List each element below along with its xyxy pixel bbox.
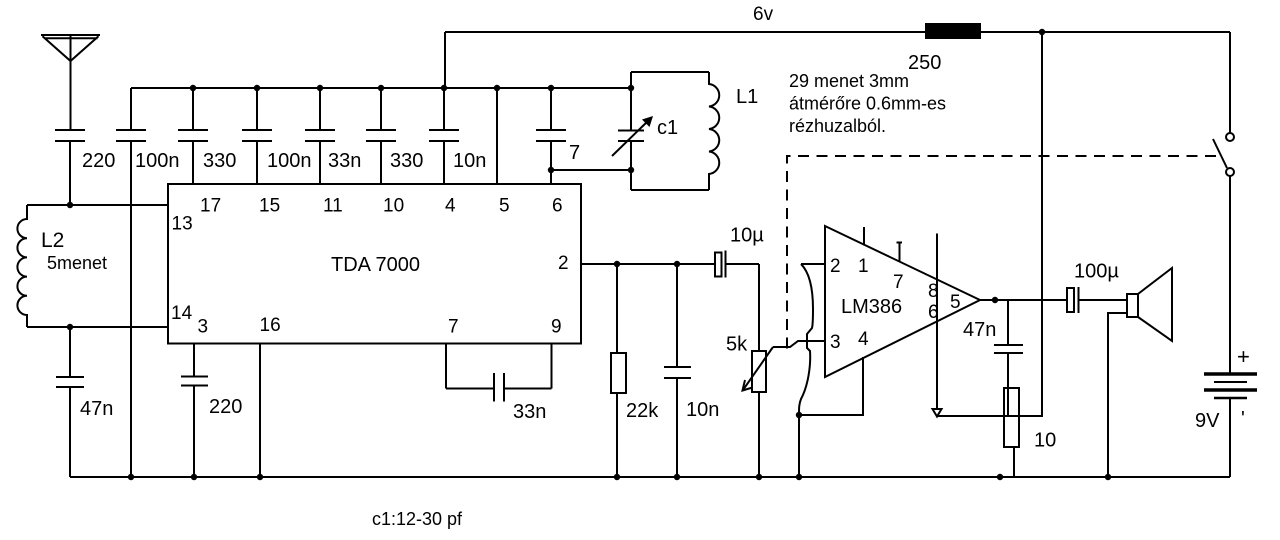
wire bus top (decoupling bus) [131, 87, 631, 89]
svg-text:7: 7 [448, 317, 459, 338]
wire tank bottom to pin 6 node [551, 169, 631, 171]
node ground junction (100n) [128, 474, 134, 480]
svg-text:7: 7 [893, 272, 904, 293]
node L2 bottom junction [67, 324, 73, 330]
svg-text:33n: 33n [328, 150, 361, 172]
wire LM386 output [980, 299, 1068, 301]
svg-text:29 menet 3mm: 29 menet 3mm [789, 71, 909, 91]
svg-text:220: 220 [209, 396, 242, 418]
svg-text:10n: 10n [453, 150, 486, 172]
wire pin6 to supply riser [937, 32, 1042, 416]
capacitor 330 (pin 10) [366, 85, 423, 184]
capacitor 47n (L2 bottom) [56, 327, 113, 477]
wire supply riser from bus to 6v rail [444, 32, 446, 88]
svg-text:250: 250 [908, 52, 941, 74]
svg-text:14: 14 [171, 303, 193, 324]
svg-text:6: 6 [552, 196, 563, 217]
capacitor 10n (pin 4) [429, 85, 486, 184]
svg-text:5k: 5k [726, 334, 748, 356]
node ground junction (zobel) [997, 474, 1003, 480]
svg-text:100n: 100n [135, 150, 180, 172]
pin 8/6 line [936, 234, 938, 409]
node 22k junction [614, 261, 620, 267]
potentiometer 5k (volume) [726, 264, 773, 477]
capacitor 220 (pin 3) [181, 343, 242, 477]
svg-text:10n: 10n [686, 399, 719, 421]
svg-text:+: + [1237, 344, 1250, 369]
svg-text:330: 330 [203, 150, 236, 172]
svg-text:1: 1 [858, 256, 869, 277]
inductor L1 tank circuit with variable capacitor c1 [612, 72, 758, 190]
svg-text:47n: 47n [963, 319, 996, 341]
svg-text:5menet: 5menet [47, 253, 107, 273]
svg-text:100µ: 100µ [1074, 261, 1119, 283]
svg-text:33n: 33n [513, 401, 546, 423]
svg-text:330: 330 [390, 150, 423, 172]
node ground junction (LM386 pins 2/4) [796, 474, 802, 480]
svg-text:13: 13 [172, 214, 193, 235]
svg-text:L2: L2 [41, 229, 64, 252]
svg-text:17: 17 [200, 196, 221, 217]
dashed link switch to potentiometer [787, 156, 1216, 355]
svg-text:11: 11 [323, 196, 343, 217]
node 10n junction [674, 261, 680, 267]
wire ground rail [70, 476, 1230, 478]
capacitor 100n (pin 13 bus) [116, 88, 180, 477]
node pin4/pin2 ground junction [796, 412, 802, 418]
svg-text:5: 5 [499, 196, 510, 217]
wire speaker return to ground [1108, 313, 1127, 477]
wire pin 5 to bus [494, 85, 500, 184]
IC U1 TDA7000 [168, 184, 581, 344]
svg-text:': ' [1241, 408, 1245, 430]
svg-text:2: 2 [558, 253, 569, 274]
switch (on volume pot) [1213, 32, 1234, 373]
wire 6v top rail [445, 31, 1230, 33]
svg-text:LM386: LM386 [841, 296, 902, 318]
svg-text:16: 16 [260, 315, 281, 336]
resistor 10 (zobel) [1004, 388, 1056, 477]
wire TDA pin 2 output [581, 263, 716, 265]
ground arrow (pin 6 path) [933, 409, 942, 417]
capacitor 100n (pin 15) [242, 85, 312, 184]
capacitor 47n (zobel) [963, 300, 1023, 388]
wire 5k wiper to LM386 pin 3 [773, 341, 825, 347]
note text (Hungarian) [789, 71, 946, 136]
node ground junction (22k) [614, 474, 620, 480]
capacitor 10n (de-emphasis) [664, 264, 719, 477]
node ground junction (pin 16) [257, 474, 263, 480]
svg-text:c1:12-30 pf: c1:12-30 pf [372, 509, 463, 529]
node ground junction (220) [191, 474, 197, 480]
wire pin 2 stub [801, 263, 825, 265]
capacitor 33n (pin 11) [305, 85, 361, 184]
wire pin 16 to ground [259, 343, 261, 477]
speaker [1127, 268, 1172, 341]
svg-text:c1: c1 [657, 117, 678, 139]
svg-text:15: 15 [259, 196, 280, 217]
node ground junction (speaker) [1105, 474, 1111, 480]
svg-text:9V: 9V [1195, 410, 1220, 432]
pin 1 stub [863, 227, 865, 246]
node ground junction (5k) [756, 474, 762, 480]
svg-text:átmérőre 0.6mm-es: átmérőre 0.6mm-es [789, 94, 946, 114]
capacitor 330 (pin 17) [178, 85, 236, 184]
svg-text:4: 4 [858, 329, 869, 350]
svg-text:6v: 6v [753, 4, 774, 25]
capacitor 33n (pins 7-9) [446, 343, 552, 423]
svg-text:3: 3 [198, 317, 209, 338]
svg-text:10: 10 [1034, 430, 1056, 452]
svg-text:22k: 22k [626, 400, 659, 422]
svg-text:100n: 100n [267, 150, 312, 172]
resistor 22k [611, 264, 659, 477]
resistor 250 (supply) [908, 23, 981, 74]
pin 7 stub [897, 243, 903, 263]
svg-text:10µ: 10µ [730, 225, 764, 247]
svg-text:rézhuzalból.: rézhuzalból. [789, 116, 886, 136]
svg-text:3: 3 [830, 332, 841, 353]
wire pin 2 to ground (curved) [799, 264, 813, 414]
svg-text:9: 9 [551, 317, 562, 338]
capacitor 220 (antenna coupling) [55, 130, 115, 205]
svg-text:L1: L1 [736, 86, 758, 108]
wire pin 4 to ground [799, 357, 863, 477]
antenna [41, 35, 100, 130]
svg-text:220: 220 [82, 150, 115, 172]
inductor L2 (input coil) [17, 205, 168, 327]
svg-text:4: 4 [445, 196, 456, 217]
node junction on 6v rail [1039, 29, 1045, 35]
node output junction [992, 297, 998, 303]
wire pin6 ground run (through resistor body) [995, 415, 1042, 417]
node ground junction (10n) [674, 474, 680, 480]
op-amp U2 LM386 [825, 226, 980, 377]
node antenna junction [67, 202, 73, 208]
capacitor 10µ (coupling) [715, 225, 764, 278]
svg-text:TDA 7000: TDA 7000 [331, 254, 420, 276]
svg-text:7: 7 [569, 142, 580, 164]
capacitor 7 (pin 6) [536, 85, 580, 184]
battery 9V [1195, 344, 1257, 477]
svg-text:47n: 47n [80, 398, 113, 420]
svg-text:2: 2 [830, 256, 841, 277]
svg-text:10: 10 [383, 196, 404, 217]
capacitor 100µ (output) [1067, 261, 1127, 314]
svg-text:5: 5 [950, 292, 961, 313]
